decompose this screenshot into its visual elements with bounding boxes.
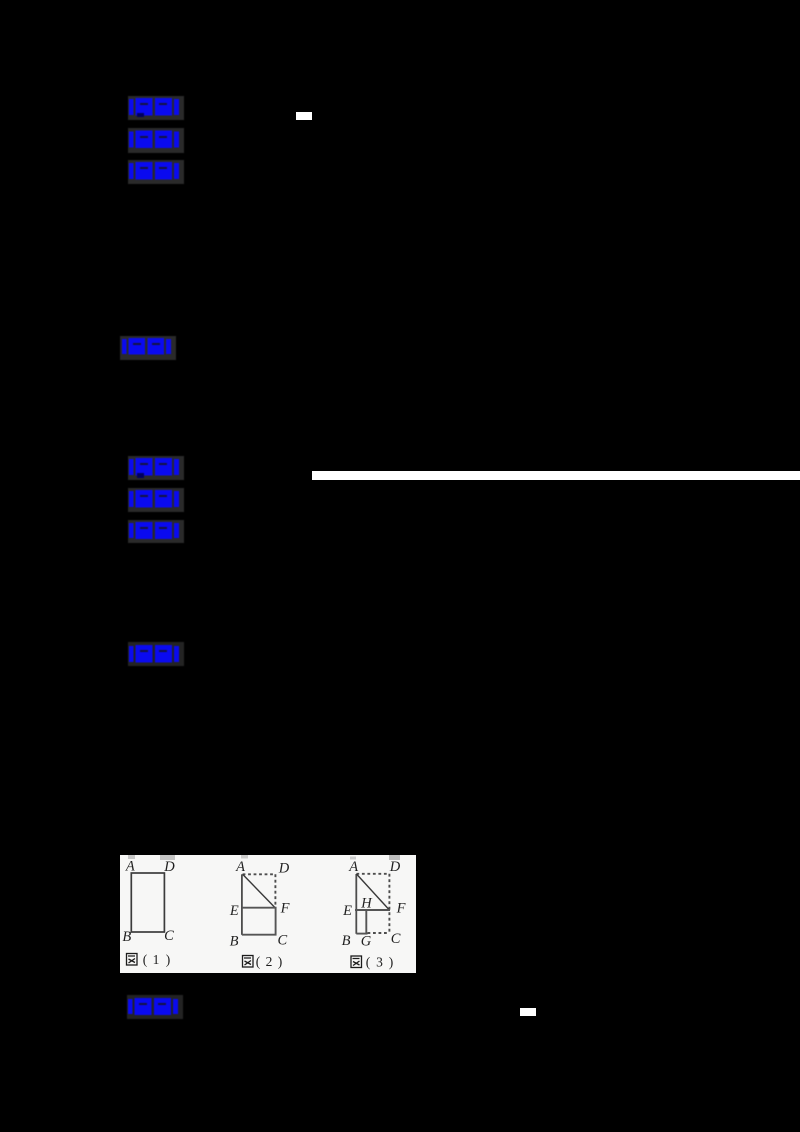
svg-text:1: 1 [153, 952, 160, 967]
svg-text:C: C [391, 931, 401, 947]
svg-text:B: B [230, 933, 239, 949]
smudge above fig1 D [160, 855, 175, 860]
blue label [dianping] row4 [120, 336, 176, 360]
svg-text:B: B [122, 929, 131, 945]
fig3 line H-G [365, 910, 367, 933]
svg-text:C: C [277, 933, 287, 949]
blue label [jieda] row7 [128, 520, 184, 543]
svg-text:F: F [280, 901, 290, 917]
white highlight bar 1 [296, 112, 312, 120]
svg-text:): ) [278, 954, 283, 969]
fig3 line B-G [356, 933, 367, 935]
svg-text:B: B [342, 933, 351, 949]
fig3 side A-B [355, 874, 357, 934]
svg-text:E: E [229, 903, 239, 919]
svg-text:A: A [125, 859, 135, 875]
svg-text:3: 3 [376, 955, 383, 970]
svg-text:(: ( [366, 955, 371, 970]
smudge above fig3 D [389, 855, 400, 860]
fig3 dashed A-D [356, 873, 389, 875]
svg-text:A: A [235, 859, 245, 875]
svg-text:D: D [163, 859, 175, 875]
svg-text:): ) [166, 952, 171, 967]
smudge above fig2 A [241, 855, 248, 859]
svg-text:C: C [164, 928, 174, 944]
svg-text:D: D [278, 861, 290, 877]
white long rule [312, 471, 800, 480]
fig3 fold line A-F [357, 874, 390, 910]
caption fig3 [351, 956, 362, 968]
figure panel [120, 855, 416, 973]
blue label [kaodian] row9 [127, 995, 183, 1019]
svg-text:F: F [396, 901, 406, 917]
blue label [fenxi] row6 [128, 488, 184, 512]
caption fig1 [127, 954, 138, 966]
svg-text:H: H [360, 896, 373, 912]
svg-text:): ) [389, 955, 394, 970]
blue label [dianping] row8 [128, 642, 184, 666]
caption fig2 [243, 956, 254, 968]
blue label [kaodian] row5 [128, 456, 184, 480]
fig2 rect EBCF [242, 908, 276, 935]
blue label [jieda] row3 [128, 160, 184, 184]
fig3 line E-F [355, 909, 390, 911]
fig2 side A-B [241, 874, 243, 935]
svg-text:A: A [348, 859, 358, 875]
svg-text:G: G [361, 934, 372, 950]
fig2 dashed A-D [243, 873, 276, 875]
svg-text:(: ( [256, 954, 261, 969]
smudge above fig1 A [128, 855, 135, 859]
blue label [kaodian] row1 [128, 96, 184, 120]
fig3 dotted G-C [368, 932, 390, 934]
fig3 dashed D-C [388, 874, 390, 933]
fig2 fold line A-F [243, 874, 275, 907]
svg-text:E: E [342, 903, 352, 919]
fig1 rectangle ABCD [131, 873, 164, 932]
smudge above fig3 A [350, 857, 356, 860]
svg-text:(: ( [143, 952, 148, 967]
blue label [fenxi] row2 [128, 128, 184, 153]
fig2 dashed D-F [274, 874, 276, 907]
svg-text:2: 2 [266, 954, 273, 969]
white highlight bar 2 [520, 1008, 536, 1016]
svg-text:D: D [389, 859, 401, 875]
